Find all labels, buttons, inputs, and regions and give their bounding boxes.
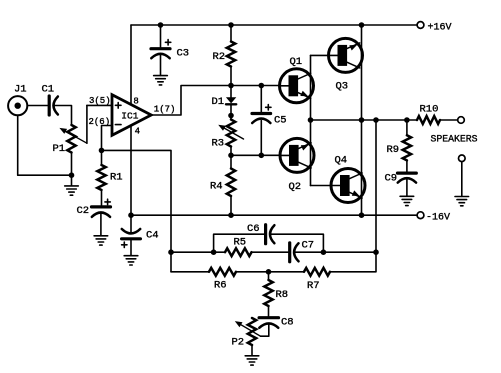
ground under speaker terminal bbox=[455, 162, 469, 206]
node junction R2 top rail bbox=[228, 22, 234, 28]
capacitor C4 bbox=[122, 215, 159, 255]
resistor R2 bbox=[213, 25, 236, 86]
node junction C3 top rail bbox=[158, 22, 164, 28]
node junction Q3-Q4 output bbox=[359, 117, 365, 123]
node junction R3-R4 node bbox=[228, 153, 234, 159]
wire -16V bottom rail bbox=[131, 214, 417, 216]
wire IC1 output up to D1 node bbox=[151, 86, 280, 116]
capacitor C9 bbox=[385, 173, 417, 197]
wire C6 branch bbox=[214, 234, 324, 252]
node junction R1 pin2 node bbox=[99, 148, 105, 154]
svg-text:Q3: Q3 bbox=[336, 81, 349, 93]
wire R6/R7 row bbox=[171, 252, 376, 272]
resistor R9 bbox=[387, 120, 412, 172]
node junction R8 top bbox=[266, 269, 272, 275]
svg-text:Q4: Q4 bbox=[335, 155, 348, 167]
resistor R8 bbox=[264, 272, 288, 316]
wire Q2 collector to Q4 base bbox=[311, 185, 332, 187]
wire +16V top rail bbox=[131, 24, 417, 26]
svg-text:R2: R2 bbox=[213, 51, 226, 63]
resistor R4 bbox=[210, 155, 235, 215]
node junction Q3 collector rail bbox=[359, 22, 365, 28]
wire IC1 pin2 input bbox=[102, 126, 113, 151]
trimmer P2 bbox=[232, 318, 261, 356]
node junction C5 bottom node bbox=[259, 153, 265, 159]
node junction D1 anode node bbox=[228, 83, 234, 89]
node junction C5 top node bbox=[259, 83, 265, 89]
resistor R5 bbox=[225, 237, 252, 257]
svg-text:4: 4 bbox=[135, 127, 140, 137]
svg-text:C3: C3 bbox=[177, 48, 190, 60]
svg-text:R4: R4 bbox=[210, 181, 223, 193]
transistor Q4 bbox=[331, 155, 365, 203]
svg-text:Q1: Q1 bbox=[290, 56, 303, 68]
capacitor C1 bbox=[42, 84, 58, 116]
resistor R7 bbox=[304, 268, 330, 292]
wire J1 to C1 bbox=[27, 105, 47, 107]
node junction R9-R10 output bbox=[404, 117, 410, 123]
trimmer R3 bbox=[212, 116, 244, 156]
svg-text:J1: J1 bbox=[14, 84, 27, 96]
svg-text:Q2: Q2 bbox=[289, 181, 302, 193]
node junction Q4 collector rail bbox=[359, 212, 365, 218]
transistor Q2 bbox=[280, 138, 314, 193]
capacitor C2 bbox=[77, 199, 111, 235]
wire IC1 pin4 down across to -16V rail bbox=[130, 126, 132, 216]
power terminal +16V bbox=[417, 22, 424, 29]
wire IC1 pin8 to top rail bbox=[130, 25, 132, 105]
capacitor C3 bbox=[151, 25, 189, 85]
svg-text:R3: R3 bbox=[212, 138, 225, 150]
wire R3/R4 node to Q2 base bbox=[231, 154, 280, 156]
transistor Q1 bbox=[280, 56, 314, 103]
potentiometer P1 bbox=[53, 105, 87, 175]
ground under C4 bbox=[124, 256, 138, 265]
node junction feedback tap output bbox=[373, 117, 379, 123]
svg-text:C5: C5 bbox=[274, 115, 287, 127]
node junction C6 branch left bbox=[211, 249, 217, 255]
transistor Q3 bbox=[329, 38, 363, 92]
svg-text:R6: R6 bbox=[214, 280, 227, 292]
node junction C4 -16V rail bbox=[128, 212, 134, 218]
svg-text:P1: P1 bbox=[53, 143, 66, 155]
wire C1 to P1 top bbox=[54, 106, 72, 126]
svg-text:P2: P2 bbox=[232, 337, 245, 349]
resistor R10 bbox=[417, 104, 458, 124]
resistor R1 bbox=[97, 150, 122, 205]
node junction driver bus output bbox=[308, 117, 314, 123]
node junction R4 -16V rail bbox=[228, 212, 234, 218]
svg-text:R9: R9 bbox=[387, 144, 400, 156]
capacitor C5 bbox=[252, 86, 287, 156]
speaker terminal top bbox=[458, 117, 465, 124]
capacitor C6 bbox=[247, 223, 274, 244]
capacitor C8 bbox=[259, 317, 294, 337]
svg-text:C1: C1 bbox=[42, 84, 55, 96]
wire output power bus Q3/Q4 bbox=[361, 25, 363, 215]
node junction P1 ground node bbox=[69, 172, 75, 178]
diode D1 bbox=[212, 86, 237, 116]
svg-text:R5: R5 bbox=[234, 237, 247, 249]
wire J1 ground return bbox=[18, 115, 72, 175]
wire R5 row bbox=[171, 251, 376, 253]
svg-text:C9: C9 bbox=[385, 173, 398, 185]
svg-text:D1: D1 bbox=[212, 96, 225, 108]
node junction feedback row left bbox=[168, 249, 174, 255]
svg-text:C4: C4 bbox=[146, 230, 159, 242]
wire output down to feedback row bbox=[375, 120, 377, 252]
wire feedback from pin2 node to R5/R6 rows bbox=[102, 150, 172, 271]
svg-text:R8: R8 bbox=[276, 289, 289, 301]
node junction C6 branch right bbox=[321, 249, 327, 255]
resistor R6 bbox=[209, 268, 236, 292]
svg-text:R1: R1 bbox=[110, 172, 123, 184]
svg-text:C6: C6 bbox=[247, 223, 260, 235]
svg-text:SPEAKERS: SPEAKERS bbox=[431, 134, 478, 145]
capacitor C7 bbox=[290, 240, 314, 262]
node junction feedback tap row bbox=[373, 249, 379, 255]
wire driver bus Q1-Q2 emitters bbox=[310, 55, 312, 185]
ground under C9 bbox=[400, 196, 414, 205]
svg-text:C2: C2 bbox=[77, 205, 90, 217]
svg-text:IC1: IC1 bbox=[121, 111, 138, 122]
wire output node row bbox=[311, 119, 418, 121]
svg-text:R10: R10 bbox=[420, 104, 439, 116]
svg-text:1(7): 1(7) bbox=[154, 105, 176, 115]
speaker terminal bottom bbox=[459, 155, 466, 162]
ground under P2 bbox=[245, 356, 259, 365]
power terminal -16V bbox=[417, 212, 424, 219]
op-amp IC1 bbox=[89, 95, 176, 137]
wire Q1 collector to Q3 base bbox=[311, 54, 329, 56]
svg-text:C8: C8 bbox=[281, 317, 294, 329]
ground under C2 bbox=[94, 236, 108, 245]
svg-text:+16V: +16V bbox=[428, 23, 452, 34]
svg-text:-16V: -16V bbox=[426, 213, 450, 224]
ground under P1 bbox=[65, 175, 79, 195]
wire IC1 pin3 input bbox=[87, 104, 112, 106]
node junction D1-R3 node bbox=[228, 113, 234, 119]
svg-text:R7: R7 bbox=[307, 280, 320, 292]
svg-text:3(5): 3(5) bbox=[89, 96, 111, 106]
svg-text:8: 8 bbox=[133, 96, 138, 106]
svg-text:C7: C7 bbox=[302, 240, 315, 252]
input jack J1 bbox=[8, 84, 27, 116]
